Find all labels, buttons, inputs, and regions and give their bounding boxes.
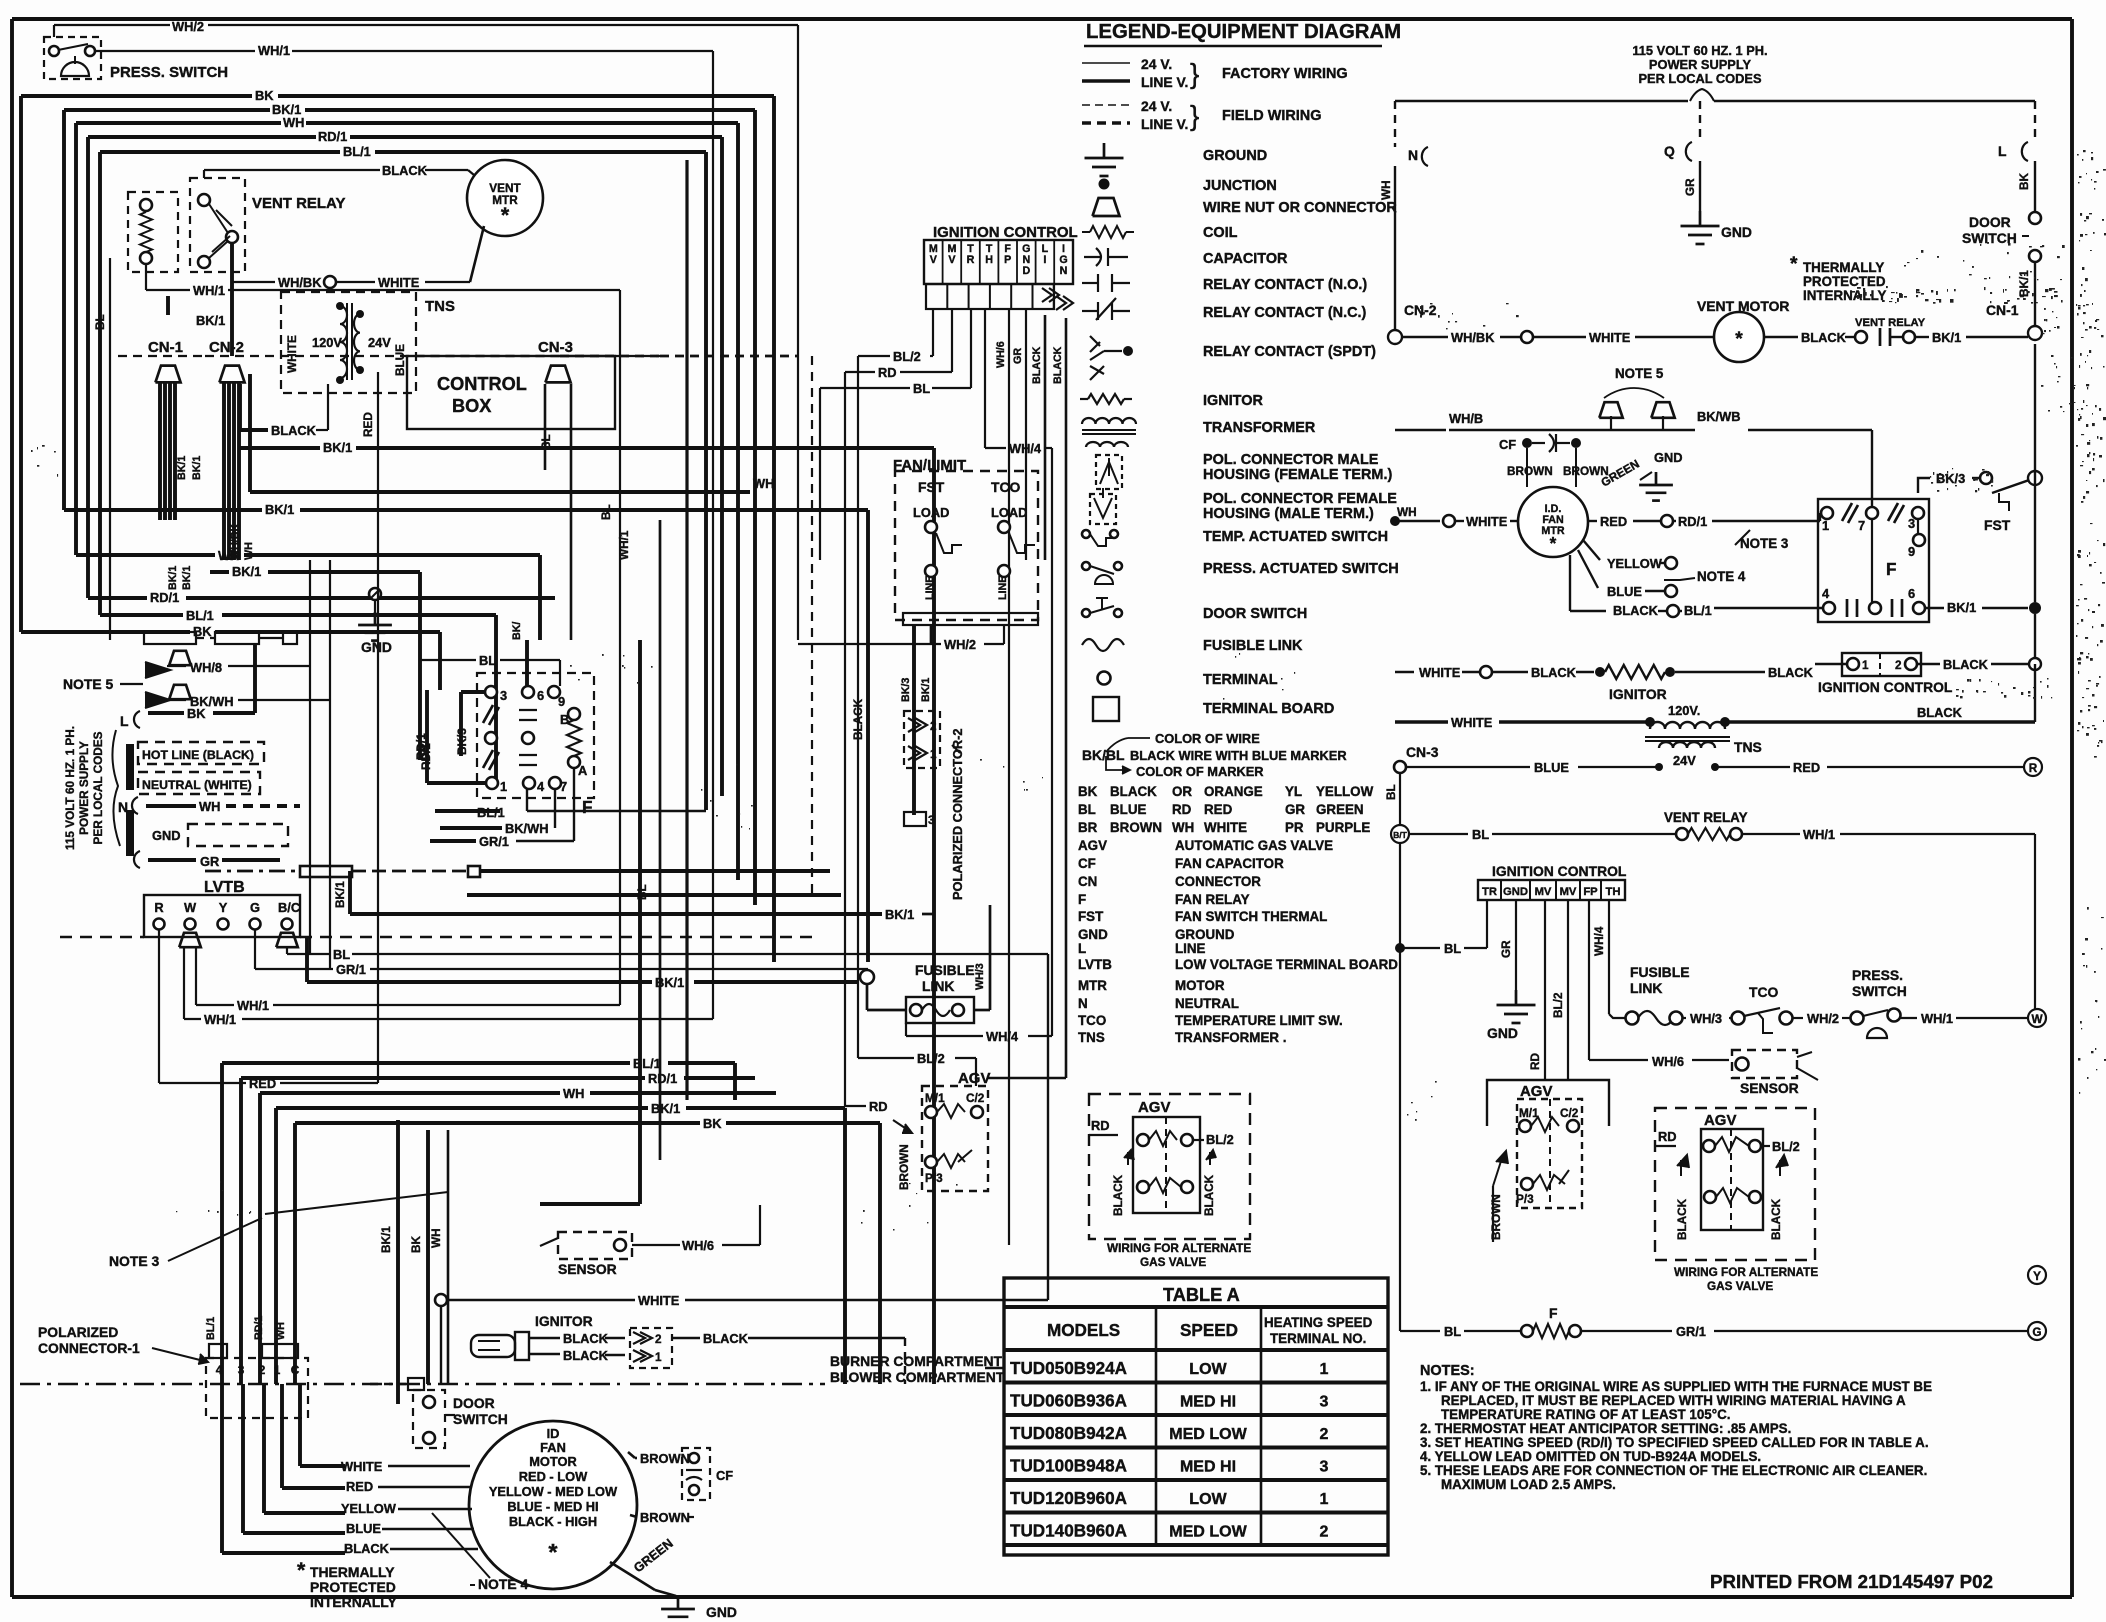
legend relay contact NO xyxy=(1082,274,1367,293)
legend ignitor xyxy=(1080,393,1263,409)
wire WH WHITE right xyxy=(1390,506,1518,529)
svg-text:L: L xyxy=(1078,941,1086,956)
svg-text:9: 9 xyxy=(558,694,565,709)
wire WH/1 from vent relay xyxy=(146,264,631,1005)
svg-text:RD/1: RD/1 xyxy=(1678,514,1707,529)
svg-text:FAN: FAN xyxy=(540,1440,566,1455)
svg-text:GND: GND xyxy=(361,639,392,655)
svg-text:GND: GND xyxy=(706,1604,737,1620)
svg-text:TUD120B960A: TUD120B960A xyxy=(1010,1489,1127,1508)
svg-text:IGNITOR: IGNITOR xyxy=(1609,686,1667,702)
svg-text:MED HI: MED HI xyxy=(1180,1393,1236,1411)
fusible link left xyxy=(867,905,1052,1044)
svg-text:BK: BK xyxy=(255,88,274,103)
svg-text:BL: BL xyxy=(1444,941,1461,956)
svg-text:CF: CF xyxy=(1078,856,1096,871)
svg-text:P: P xyxy=(1004,254,1011,266)
svg-text:MOTOR: MOTOR xyxy=(1175,978,1225,993)
gas valve AGV right xyxy=(1487,1080,1609,1242)
wire RD/1 row xyxy=(88,590,555,760)
svg-text:24 V.: 24 V. xyxy=(1141,98,1172,114)
svg-text:N: N xyxy=(1078,996,1088,1011)
scan noise xyxy=(31,150,2106,1231)
legend abbreviation color table xyxy=(1078,784,1374,835)
svg-text:BLACK WIRE WITH BLUE MARKER: BLACK WIRE WITH BLUE MARKER xyxy=(1130,748,1347,763)
svg-text:FUSIBLE: FUSIBLE xyxy=(1630,964,1690,980)
wire BLACK BL/1 right xyxy=(1570,555,1823,618)
motor lead WHITE xyxy=(341,1459,470,1474)
svg-text:WH/1: WH/1 xyxy=(1803,827,1835,842)
legend transformer xyxy=(1082,418,1316,447)
svg-text:WH: WH xyxy=(430,1228,443,1248)
ignition control strip right xyxy=(1478,863,1627,900)
svg-text:WH: WH xyxy=(283,115,304,130)
svg-text:BL/1: BL/1 xyxy=(1684,603,1712,618)
compartment divider xyxy=(20,1353,1005,1385)
svg-text:AGV: AGV xyxy=(1520,1083,1552,1100)
legend field wiring xyxy=(1082,98,1321,132)
svg-text:FUSIBLE: FUSIBLE xyxy=(915,962,975,978)
svg-text:WHITE: WHITE xyxy=(638,1293,680,1308)
svg-text:POL. CONNECTOR FEMALE: POL. CONNECTOR FEMALE xyxy=(1203,491,1397,507)
wire BK/1 fanlimit vert xyxy=(920,678,934,1384)
svg-text:7: 7 xyxy=(1858,518,1865,533)
svg-text:RD: RD xyxy=(1091,1118,1110,1133)
svg-text:GR: GR xyxy=(1012,348,1024,364)
wire WH/1 LVTB row2 xyxy=(184,947,713,1027)
svg-text:COLOR OF MARKER: COLOR OF MARKER xyxy=(1136,764,1264,779)
svg-text:WH: WH xyxy=(243,542,255,560)
svg-text:OR: OR xyxy=(1172,784,1192,799)
svg-text:BLACK: BLACK xyxy=(1801,330,1847,345)
svg-text:GR/1: GR/1 xyxy=(336,962,366,977)
fan capacitor CF right xyxy=(1499,434,1609,487)
svg-text:HOUSING (MALE TERM.): HOUSING (MALE TERM.) xyxy=(1203,506,1374,522)
wire WH/1 top xyxy=(95,43,713,1019)
svg-text:TERMINAL NO.: TERMINAL NO. xyxy=(1270,1331,1366,1346)
svg-text:AGV: AGV xyxy=(958,1070,990,1087)
vent motor row right xyxy=(1402,298,2042,362)
svg-text:F: F xyxy=(1078,892,1086,907)
svg-text:GND: GND xyxy=(1487,1025,1518,1041)
svg-text:LVTB: LVTB xyxy=(1078,957,1112,972)
svg-text:GR: GR xyxy=(1285,802,1305,817)
transformer TNS xyxy=(281,292,455,393)
motor lead BLUE xyxy=(346,1521,474,1536)
svg-text:RED: RED xyxy=(362,412,375,437)
svg-text:1: 1 xyxy=(930,748,937,761)
svg-text:1: 1 xyxy=(655,1351,662,1364)
svg-text:WH: WH xyxy=(1380,180,1393,200)
svg-text:NOTE 5: NOTE 5 xyxy=(1615,366,1664,381)
svg-text:WH/6: WH/6 xyxy=(995,341,1007,368)
svg-text:LOW VOLTAGE TERMINAL BOARD: LOW VOLTAGE TERMINAL BOARD xyxy=(1175,957,1398,972)
svg-text:1: 1 xyxy=(1862,659,1869,672)
neutral white dashed xyxy=(118,772,300,815)
wire BL to F box xyxy=(420,653,560,686)
svg-text:WHITE: WHITE xyxy=(286,335,299,373)
svg-text:GAS VALVE: GAS VALVE xyxy=(1140,1256,1206,1269)
svg-text:RED: RED xyxy=(1600,514,1627,529)
svg-text:BLACK: BLACK xyxy=(1676,1198,1689,1240)
svg-text:4: 4 xyxy=(537,779,545,794)
wire BL/1 xyxy=(100,144,706,810)
svg-text:YELLOW: YELLOW xyxy=(1316,784,1374,799)
wire GR/1 F box xyxy=(430,768,574,849)
wire RED LVTB xyxy=(159,560,378,1091)
svg-text:PURPLE: PURPLE xyxy=(1316,820,1370,835)
svg-text:TCO: TCO xyxy=(1749,984,1779,1000)
svg-text:FACTORY WIRING: FACTORY WIRING xyxy=(1222,66,1348,82)
svg-text:HOUSING (FEMALE TERM.): HOUSING (FEMALE TERM.) xyxy=(1203,467,1392,483)
svg-text:CF: CF xyxy=(1499,437,1516,452)
wire BL/2 from ignition control xyxy=(858,309,933,364)
svg-text:WH: WH xyxy=(563,1086,584,1101)
B/T terminal vent relay row xyxy=(1391,810,2035,1331)
svg-text:CONNECTOR: CONNECTOR xyxy=(1175,874,1261,889)
wire BK row xyxy=(21,624,440,690)
svg-text:WIRING FOR ALTERNATE: WIRING FOR ALTERNATE xyxy=(1674,1266,1818,1279)
svg-text:24V: 24V xyxy=(1673,753,1696,768)
svg-text:PRESS. ACTUATED SWITCH: PRESS. ACTUATED SWITCH xyxy=(1203,561,1399,577)
door switch S2 xyxy=(370,1378,508,1448)
svg-text:N: N xyxy=(1060,265,1068,277)
svg-text:3: 3 xyxy=(1320,1458,1329,1476)
legend junction xyxy=(1099,178,1277,194)
svg-text:FUSIBLE LINK: FUSIBLE LINK xyxy=(1203,638,1303,654)
svg-text:FP: FP xyxy=(1583,886,1598,898)
svg-text:H: H xyxy=(985,254,993,266)
svg-text:LINK: LINK xyxy=(922,978,954,994)
legend abbreviations xyxy=(1078,838,1398,1045)
wires from connector-1 down xyxy=(222,1384,345,1553)
svg-text:G: G xyxy=(2032,1326,2041,1339)
polarized connector-1 xyxy=(38,1316,308,1418)
green ground right xyxy=(1599,450,1683,501)
wire BK/3 fan limit xyxy=(900,625,914,815)
svg-text:CN: CN xyxy=(1078,874,1097,889)
svg-text:WH/B: WH/B xyxy=(1449,411,1483,426)
wire BL to TR xyxy=(1395,900,1487,956)
svg-text:YELLOW - MED LOW: YELLOW - MED LOW xyxy=(489,1484,618,1499)
wire BL from LVTB xyxy=(287,947,1048,962)
svg-text:2: 2 xyxy=(1320,1523,1329,1541)
legend temp actuated switch xyxy=(1082,529,1388,546)
press switch PS1 xyxy=(44,37,228,81)
svg-text:WHITE: WHITE xyxy=(1419,665,1461,680)
sensor left xyxy=(540,1205,760,1277)
svg-text:BL: BL xyxy=(94,314,107,330)
svg-text:M/1: M/1 xyxy=(925,1092,945,1105)
svg-text:F: F xyxy=(1549,1305,1558,1321)
svg-text:WHITE: WHITE xyxy=(1589,330,1631,345)
svg-text:BOX: BOX xyxy=(452,396,491,416)
legend title xyxy=(1084,21,1401,46)
wire BLACK ign vertical xyxy=(1031,315,1045,560)
svg-text:3: 3 xyxy=(238,1364,245,1377)
svg-text:TH: TH xyxy=(1606,886,1621,898)
svg-text:2: 2 xyxy=(655,1333,662,1346)
svg-text:RED: RED xyxy=(346,1479,373,1494)
svg-text:BK/1: BK/1 xyxy=(1947,600,1976,615)
svg-text:AGV: AGV xyxy=(1704,1112,1736,1129)
svg-text:RD/1: RD/1 xyxy=(150,590,179,605)
svg-text:LINE: LINE xyxy=(924,576,936,600)
svg-text:V: V xyxy=(948,254,956,266)
svg-text:YL: YL xyxy=(1285,784,1302,799)
svg-text:LOAD: LOAD xyxy=(913,505,949,520)
svg-text:WHITE: WHITE xyxy=(1451,715,1493,730)
wire WH xyxy=(76,115,738,880)
svg-text:LINE V.: LINE V. xyxy=(1141,74,1188,90)
svg-text:BLUE - MED HI: BLUE - MED HI xyxy=(507,1499,598,1514)
svg-text:BK/WH: BK/WH xyxy=(505,821,548,836)
svg-text:BL: BL xyxy=(333,947,350,962)
svg-text:MED LOW: MED LOW xyxy=(1169,1425,1247,1443)
svg-text:COLOR OF WIRE: COLOR OF WIRE xyxy=(1155,731,1260,746)
svg-text:BL: BL xyxy=(1444,1324,1461,1339)
svg-text:CN-3: CN-3 xyxy=(1406,744,1439,760)
svg-text:WH: WH xyxy=(1172,820,1194,835)
svg-text:WH/6: WH/6 xyxy=(682,1238,714,1253)
svg-text:R: R xyxy=(967,254,975,266)
svg-text:GROUND: GROUND xyxy=(1175,927,1235,942)
svg-text:TR: TR xyxy=(1482,886,1497,898)
svg-text:THERMALLY: THERMALLY xyxy=(1803,260,1884,275)
svg-text:BLUE: BLUE xyxy=(1534,760,1569,775)
svg-text:IGNITION CONTROL: IGNITION CONTROL xyxy=(933,224,1078,241)
svg-text:FIELD WIRING: FIELD WIRING xyxy=(1222,108,1321,124)
gas valve AGV middle alternate xyxy=(1089,1094,1251,1269)
svg-text:IGNITOR: IGNITOR xyxy=(535,1313,593,1329)
svg-text:BLACK: BLACK xyxy=(1031,346,1043,384)
svg-text:SWITCH: SWITCH xyxy=(453,1411,508,1427)
svg-text:TRANSFORMER .: TRANSFORMER . xyxy=(1175,1030,1286,1045)
wire BK/1 mid xyxy=(240,440,934,712)
svg-text:MAXIMUM LOAD 2.5 AMPS.: MAXIMUM LOAD 2.5 AMPS. xyxy=(1441,1477,1616,1492)
svg-text:CN-1: CN-1 xyxy=(1986,302,2019,318)
svg-text:BL: BL xyxy=(1078,802,1096,817)
svg-text:FAN SWITCH THERMAL: FAN SWITCH THERMAL xyxy=(1175,909,1327,924)
note 3 arrow long xyxy=(265,1192,448,1214)
svg-text:B/T: B/T xyxy=(1393,830,1408,840)
svg-text:LOAD: LOAD xyxy=(991,505,1027,520)
svg-text:BL/2: BL/2 xyxy=(1206,1132,1234,1147)
svg-text:BK/1: BK/1 xyxy=(323,440,352,455)
note 5 arrows left xyxy=(63,560,330,969)
wire RD/1 long bottom xyxy=(241,1071,755,1384)
svg-text:BK/1: BK/1 xyxy=(885,907,914,922)
svg-text:LOW: LOW xyxy=(1189,1490,1227,1508)
svg-text:WH/4: WH/4 xyxy=(986,1029,1019,1044)
svg-text:3: 3 xyxy=(928,814,935,827)
svg-text:BK/3: BK/3 xyxy=(456,728,469,755)
svg-text:NOTES:: NOTES: xyxy=(1420,1363,1475,1379)
svg-text:POWER SUPPLY: POWER SUPPLY xyxy=(1649,57,1752,72)
svg-text:RED: RED xyxy=(1204,802,1233,817)
Y terminal right xyxy=(2028,1266,2046,1284)
svg-text:BL/2: BL/2 xyxy=(917,1051,945,1066)
svg-text:IGNITION CONTROL: IGNITION CONTROL xyxy=(1818,679,1953,695)
svg-text:WH/3: WH/3 xyxy=(974,963,986,990)
svg-text:MV: MV xyxy=(1535,886,1552,898)
CN bundle wires xyxy=(160,382,255,590)
svg-text:DOOR: DOOR xyxy=(1969,214,2011,230)
ground Q terminal xyxy=(1664,101,1752,244)
svg-text:WH: WH xyxy=(1397,506,1417,519)
svg-text:MODELS: MODELS xyxy=(1047,1321,1120,1340)
svg-text:WHITE: WHITE xyxy=(341,1459,383,1474)
wire WH/1 LVTB row1 xyxy=(196,947,620,1013)
svg-text:L: L xyxy=(1998,143,2007,159)
note 4 right xyxy=(1664,569,1746,584)
svg-text:RD: RD xyxy=(1172,802,1192,817)
wire GR/1 from LVTB xyxy=(255,930,868,977)
svg-text:WH/1: WH/1 xyxy=(258,43,290,58)
svg-text:WH: WH xyxy=(199,799,220,814)
svg-text:BL/2: BL/2 xyxy=(1772,1139,1800,1154)
svg-text:C/2: C/2 xyxy=(966,1092,985,1105)
svg-text:BR: BR xyxy=(1078,820,1098,835)
svg-text:RELAY CONTACT (SPDT): RELAY CONTACT (SPDT) xyxy=(1203,344,1376,360)
terminal board LVTB xyxy=(60,878,815,947)
CN-2 node xyxy=(1388,302,1437,344)
svg-text:9: 9 xyxy=(1908,544,1915,559)
note 5 right xyxy=(1599,366,1674,430)
svg-text:BLUE: BLUE xyxy=(394,344,407,376)
svg-text:6: 6 xyxy=(537,688,544,703)
svg-text:DOOR SWITCH: DOOR SWITCH xyxy=(1203,606,1307,622)
svg-text:CN-1: CN-1 xyxy=(148,339,183,356)
svg-text:R: R xyxy=(154,900,163,915)
svg-text:BLACK: BLACK xyxy=(382,163,428,178)
table A xyxy=(1004,1278,1388,1555)
svg-text:BLACK: BLACK xyxy=(1110,784,1157,799)
wire RD to AGV right xyxy=(1529,900,1545,1080)
junction dot BLACK xyxy=(0,0,1,1)
wire BK/1 lower mid xyxy=(160,502,868,962)
svg-text:WH/1: WH/1 xyxy=(237,998,269,1013)
svg-text:7: 7 xyxy=(560,779,567,794)
svg-text:PER LOCAL CODES: PER LOCAL CODES xyxy=(1638,71,1762,86)
svg-text:BK/1: BK/1 xyxy=(176,456,188,480)
fusible link right xyxy=(1626,964,1745,1026)
svg-text:RD: RD xyxy=(878,365,897,380)
svg-text:ID: ID xyxy=(547,1426,560,1441)
svg-text:RD/1: RD/1 xyxy=(648,1071,677,1086)
neutral N terminal xyxy=(1380,101,1428,337)
svg-text:SPEED: SPEED xyxy=(1180,1321,1238,1340)
wire BL left xyxy=(94,258,110,640)
svg-text:GND: GND xyxy=(152,828,181,843)
ground GND mid xyxy=(358,588,392,655)
svg-text:TUD050B924A: TUD050B924A xyxy=(1010,1359,1127,1378)
svg-text:BLACK: BLACK xyxy=(563,1331,609,1346)
legend relay contact SPDT xyxy=(1090,336,1376,380)
svg-text:BL/1: BL/1 xyxy=(477,805,505,820)
svg-text:BLACK: BLACK xyxy=(1943,657,1989,672)
ID fan motor M2 xyxy=(469,1421,637,1589)
svg-text:WH/6: WH/6 xyxy=(1652,1054,1684,1069)
wire WHITE bottom long xyxy=(435,954,1048,1384)
legend wire nut xyxy=(1093,198,1398,216)
fan limit box xyxy=(893,457,1038,625)
svg-text:R: R xyxy=(2029,762,2038,775)
svg-text:Q: Q xyxy=(1664,143,1675,159)
svg-text:RD/1: RD/1 xyxy=(318,129,347,144)
svg-text:TEMP. ACTUATED SWITCH: TEMP. ACTUATED SWITCH xyxy=(1203,529,1388,545)
wire BK/1 from F right xyxy=(1925,344,2041,664)
legend fusible link xyxy=(1082,638,1303,654)
115V power supply right xyxy=(1632,43,1767,101)
wire BLACK ign vertical2 xyxy=(988,318,1066,1078)
svg-text:WH/BK: WH/BK xyxy=(1451,330,1495,345)
svg-text:WHITE: WHITE xyxy=(1204,820,1247,835)
svg-text:IGNITOR: IGNITOR xyxy=(1203,393,1263,409)
svg-text:WIRE NUT OR CONNECTOR: WIRE NUT OR CONNECTOR xyxy=(1203,200,1397,216)
control box xyxy=(407,356,660,429)
svg-text:TEMPERATURE LIMIT SW.: TEMPERATURE LIMIT SW. xyxy=(1175,1013,1343,1028)
svg-text:GAS VALVE: GAS VALVE xyxy=(1707,1280,1773,1293)
svg-text:BK: BK xyxy=(2018,173,2031,190)
svg-text:1: 1 xyxy=(274,1364,281,1377)
svg-text:WH: WH xyxy=(218,548,239,563)
svg-text:CONTROL: CONTROL xyxy=(437,374,527,394)
svg-text:POLARIZED CONNECTOR-2: POLARIZED CONNECTOR-2 xyxy=(950,728,965,900)
connector CN-1 xyxy=(118,339,205,382)
svg-text:GND: GND xyxy=(1078,927,1108,942)
svg-text:BL: BL xyxy=(1472,827,1489,842)
ignition control terminals xyxy=(926,284,1073,310)
wire BL/2 AGV xyxy=(858,1051,976,1086)
wire WH/6 vertical xyxy=(995,309,1009,1245)
svg-text:C/2: C/2 xyxy=(1560,1107,1579,1120)
svg-text:AGV: AGV xyxy=(1078,838,1107,853)
svg-text:RD/1: RD/1 xyxy=(253,1316,265,1340)
wire YELLOW right xyxy=(1583,540,1677,571)
vent motor M1 xyxy=(467,160,543,236)
svg-text:NEUTRAL (WHITE): NEUTRAL (WHITE) xyxy=(142,778,252,792)
motor lead YELLOW xyxy=(341,1501,472,1516)
svg-text:BL/1: BL/1 xyxy=(186,608,214,623)
svg-text:PER LOCAL CODES: PER LOCAL CODES xyxy=(92,731,105,844)
svg-text:TCO: TCO xyxy=(991,479,1021,495)
svg-text:B: B xyxy=(560,712,569,727)
svg-text:BK/1: BK/1 xyxy=(265,502,294,517)
svg-text:GR/1: GR/1 xyxy=(479,834,509,849)
legend capacitor xyxy=(1084,248,1288,267)
wire WH mid xyxy=(250,374,774,492)
svg-text:N: N xyxy=(118,799,128,815)
svg-text:WHITE: WHITE xyxy=(1466,514,1508,529)
svg-text:BK/1: BK/1 xyxy=(380,1226,393,1253)
wire RD/1 xyxy=(88,129,722,796)
svg-text:L: L xyxy=(120,713,129,729)
svg-text:COIL: COIL xyxy=(1203,225,1238,241)
svg-text:BL: BL xyxy=(636,884,649,900)
svg-text:BROWN: BROWN xyxy=(1507,465,1553,478)
wire GR vertical xyxy=(1012,309,1026,560)
svg-text:3: 3 xyxy=(1908,516,1915,531)
svg-text:BLACK - HIGH: BLACK - HIGH xyxy=(509,1514,597,1529)
svg-text:GREEN: GREEN xyxy=(1316,802,1364,817)
wire BK/1 vent relay to CN xyxy=(168,243,232,356)
svg-text:NOTE 5: NOTE 5 xyxy=(63,676,113,692)
svg-text:*: * xyxy=(501,203,510,227)
svg-text:1: 1 xyxy=(1822,518,1829,533)
svg-text:BL: BL xyxy=(600,504,613,520)
svg-text:TEMPERATURE RATING OF AT LEAST: TEMPERATURE RATING OF AT LEAST 105°C. xyxy=(1441,1407,1730,1422)
